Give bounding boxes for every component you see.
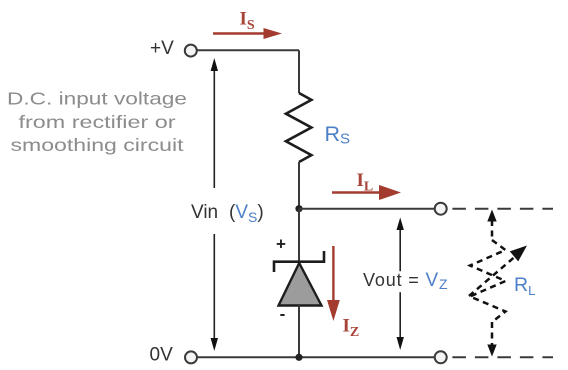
zener diode triangle <box>279 263 322 306</box>
svg-text:Vout = VZ: Vout = VZ <box>363 270 448 292</box>
svg-text:D.C. input voltage: D.C. input voltage <box>7 89 187 109</box>
measurement arrow Vout <box>397 218 404 351</box>
node output junction <box>295 205 302 212</box>
svg-text:(VS): (VS) <box>229 202 264 225</box>
svg-text:Vin: Vin <box>191 202 218 223</box>
terminal output <box>435 203 447 215</box>
wire output rail <box>299 208 435 210</box>
current arrow IL <box>332 185 401 200</box>
svg-text:+: + <box>276 235 286 254</box>
svg-text:0V: 0V <box>150 345 174 366</box>
terminal 0V <box>185 351 197 363</box>
svg-text:-: - <box>280 305 286 324</box>
arrowhead RL top <box>487 210 496 222</box>
wire zener to bottom rail <box>298 306 300 358</box>
svg-text:from rectifier or: from rectifier or <box>19 112 176 132</box>
terminal +V <box>185 45 197 57</box>
current arrow IS <box>213 28 282 39</box>
resistor RS <box>286 93 312 162</box>
terminal bottom right <box>435 351 447 363</box>
zener diode cathode bar <box>274 251 324 272</box>
wire node to zener <box>298 209 300 262</box>
node bottom junction <box>295 354 302 361</box>
svg-text:+V: +V <box>150 38 174 59</box>
measurement arrow Vin <box>211 58 218 351</box>
variable arrow through RL <box>469 246 527 297</box>
label Vin (VS) <box>185 188 267 234</box>
wire resistor to node <box>298 162 300 209</box>
current arrow IZ <box>327 246 340 321</box>
wire dashed output continuation <box>452 208 553 210</box>
arrowhead RL bottom <box>487 345 496 357</box>
wire top rail <box>197 49 299 51</box>
wire bottom rail <box>197 356 435 358</box>
label Vout = VZ <box>358 271 450 292</box>
load resistor RL dashed <box>470 220 506 345</box>
wire top vertical to resistor <box>298 50 300 93</box>
svg-text:smoothing circuit: smoothing circuit <box>11 135 184 155</box>
wire dashed bottom continuation <box>452 356 553 358</box>
